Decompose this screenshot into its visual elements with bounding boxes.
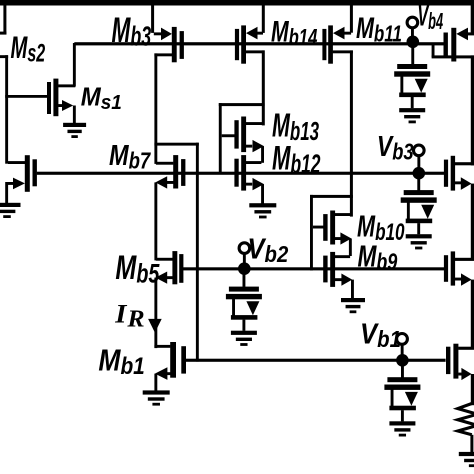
wire top gate bus bbox=[74, 42, 444, 45]
ground resistor bbox=[459, 452, 474, 456]
transistor Mb13 bbox=[234, 120, 238, 148]
wire right cascode rail segment D bbox=[471, 374, 474, 405]
terminal Vb1 bbox=[397, 334, 408, 345]
MOS-cap at Vb1 bbox=[401, 360, 404, 377]
transistor Mb9 bbox=[335, 255, 350, 258]
resistor (bottom right) bbox=[458, 404, 474, 435]
power rail VDD bbox=[0, 0, 474, 6]
node Vb2 bbox=[238, 262, 251, 275]
ground (left edge) bbox=[0, 203, 21, 207]
transistor Mb14 bbox=[262, 5, 265, 33]
svg-text:Vb2: Vb2 bbox=[247, 232, 288, 267]
wire Mb11 drain to Mb10 drain bbox=[350, 50, 353, 216]
transistor (left edge, gate to bias bus) bbox=[25, 155, 30, 192]
svg-text:Vb1: Vb1 bbox=[360, 317, 401, 352]
current arrow IR bbox=[148, 319, 162, 333]
transistor (right column, gate Vb2) bbox=[444, 255, 448, 282]
transistor Mb10 bbox=[323, 214, 327, 241]
terminal Vb3 bbox=[414, 145, 425, 156]
transistor (top right, diode-connected) bbox=[471, 5, 474, 34]
svg-text:Mb7: Mb7 bbox=[109, 139, 152, 174]
transistor (right column, gate Vb3) bbox=[444, 160, 448, 187]
wire Vb3 stem bbox=[417, 156, 420, 168]
MOS-cap at Vb2 bbox=[243, 269, 246, 287]
wire Mb7 drain tie to Vb1 bus (long vertical) bbox=[154, 143, 198, 146]
wire Vb2 gate bus bbox=[183, 267, 444, 270]
wire middle gate bus bbox=[37, 172, 446, 175]
ground Mb1 bbox=[143, 390, 170, 394]
wire right cascode rail segment B bbox=[471, 184, 474, 261]
svg-text:Mb3: Mb3 bbox=[112, 11, 152, 51]
svg-text:Vb3: Vb3 bbox=[377, 130, 414, 166]
wire right cascode rail segment C bbox=[471, 280, 474, 349]
transistor Mb3 bbox=[151, 5, 154, 33]
wire right cascode rail segment A bbox=[471, 55, 474, 165]
svg-text:Mb11: Mb11 bbox=[356, 11, 402, 48]
ground Mb12 bbox=[249, 203, 276, 207]
svg-text:Ms1: Ms1 bbox=[81, 82, 122, 114]
transistor Ms2 (clipped at left edge) bbox=[3, 5, 6, 35]
wire Vb1 bus bbox=[186, 359, 446, 362]
wire Mb5 source to Mb1 drain with IR arrow bbox=[154, 278, 157, 349]
svg-text:Mb1: Mb1 bbox=[98, 344, 144, 380]
wire Mb7 source to Mb5 drain bbox=[154, 182, 157, 260]
transistor Mb12 bbox=[246, 161, 262, 164]
transistor Mb5 bbox=[172, 251, 177, 284]
ground Ms1 bbox=[63, 123, 86, 127]
wire Vb2 stem bbox=[243, 253, 246, 264]
node Vb4 bbox=[407, 36, 420, 49]
transistor (right column, gate Vb1) bbox=[446, 347, 450, 374]
wire Mb13 drain-gate tie bbox=[219, 103, 265, 106]
svg-text:Mb14: Mb14 bbox=[271, 16, 317, 51]
ground Mb9 bbox=[341, 298, 365, 302]
terminal Vb4 bbox=[407, 17, 418, 28]
transistor Mb1 bbox=[154, 345, 170, 348]
transistor Mb7 bbox=[173, 155, 178, 188]
MOS-cap at Vb3 bbox=[417, 173, 420, 191]
wire Vb1 stem bbox=[401, 344, 404, 355]
transistor Mb11 bbox=[350, 5, 353, 33]
wire Mb10 drain branch bbox=[310, 195, 353, 198]
svg-text:Mb5: Mb5 bbox=[115, 249, 160, 288]
node Vb3 bbox=[413, 167, 426, 180]
transistor Ms1 bbox=[47, 82, 51, 114]
MOS-cap at Vb4 bbox=[411, 44, 414, 65]
svg-text:Ms2: Ms2 bbox=[10, 29, 45, 67]
wire Vb4 stem bbox=[411, 28, 414, 37]
wire Mb3 drain to Mb7 drain bbox=[154, 53, 157, 163]
node Vb1 bbox=[396, 354, 409, 367]
wire Mb14 drain to Mb13 drain bbox=[262, 50, 265, 125]
terminal Vb2 bbox=[239, 243, 250, 254]
svg-text:IR: IR bbox=[114, 298, 145, 332]
